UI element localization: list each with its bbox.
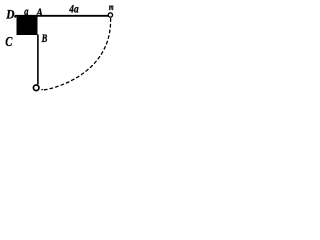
node dot left of square corner D [14,15,16,17]
wire: vertical string from B down to lower mass [37,35,39,85]
dashed arc: swing path of mass [42,19,111,90]
svg-text:C: C [5,35,13,50]
svg-text:A: A [35,7,43,19]
wire: horizontal string from A to mass m [15,15,108,17]
mass circle at bottom (hanging position) [33,85,39,91]
svg-text:m: m [109,2,114,12]
svg-text:a: a [24,6,28,18]
square plate DACB [17,15,38,35]
svg-text:D: D [5,7,14,21]
mass circle m at top right [108,13,112,17]
svg-text:B: B [41,33,48,45]
svg-text:4a: 4a [69,1,79,15]
background [0,0,127,99]
